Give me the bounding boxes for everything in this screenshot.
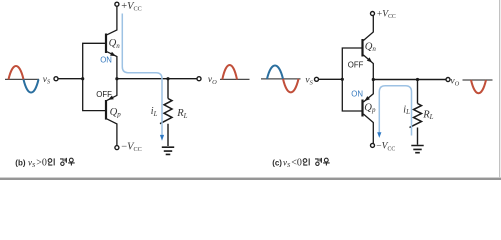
- svg-text:>0: >0: [36, 157, 47, 168]
- svg-text:ON: ON: [100, 56, 112, 65]
- svg-text:<0: <0: [291, 157, 302, 168]
- svg-text:(c): (c): [272, 158, 282, 167]
- svg-text:(b): (b): [15, 158, 26, 167]
- svg-text:OFF: OFF: [96, 90, 112, 99]
- svg-text:ON: ON: [351, 90, 363, 99]
- svg-text:OFF: OFF: [348, 60, 364, 69]
